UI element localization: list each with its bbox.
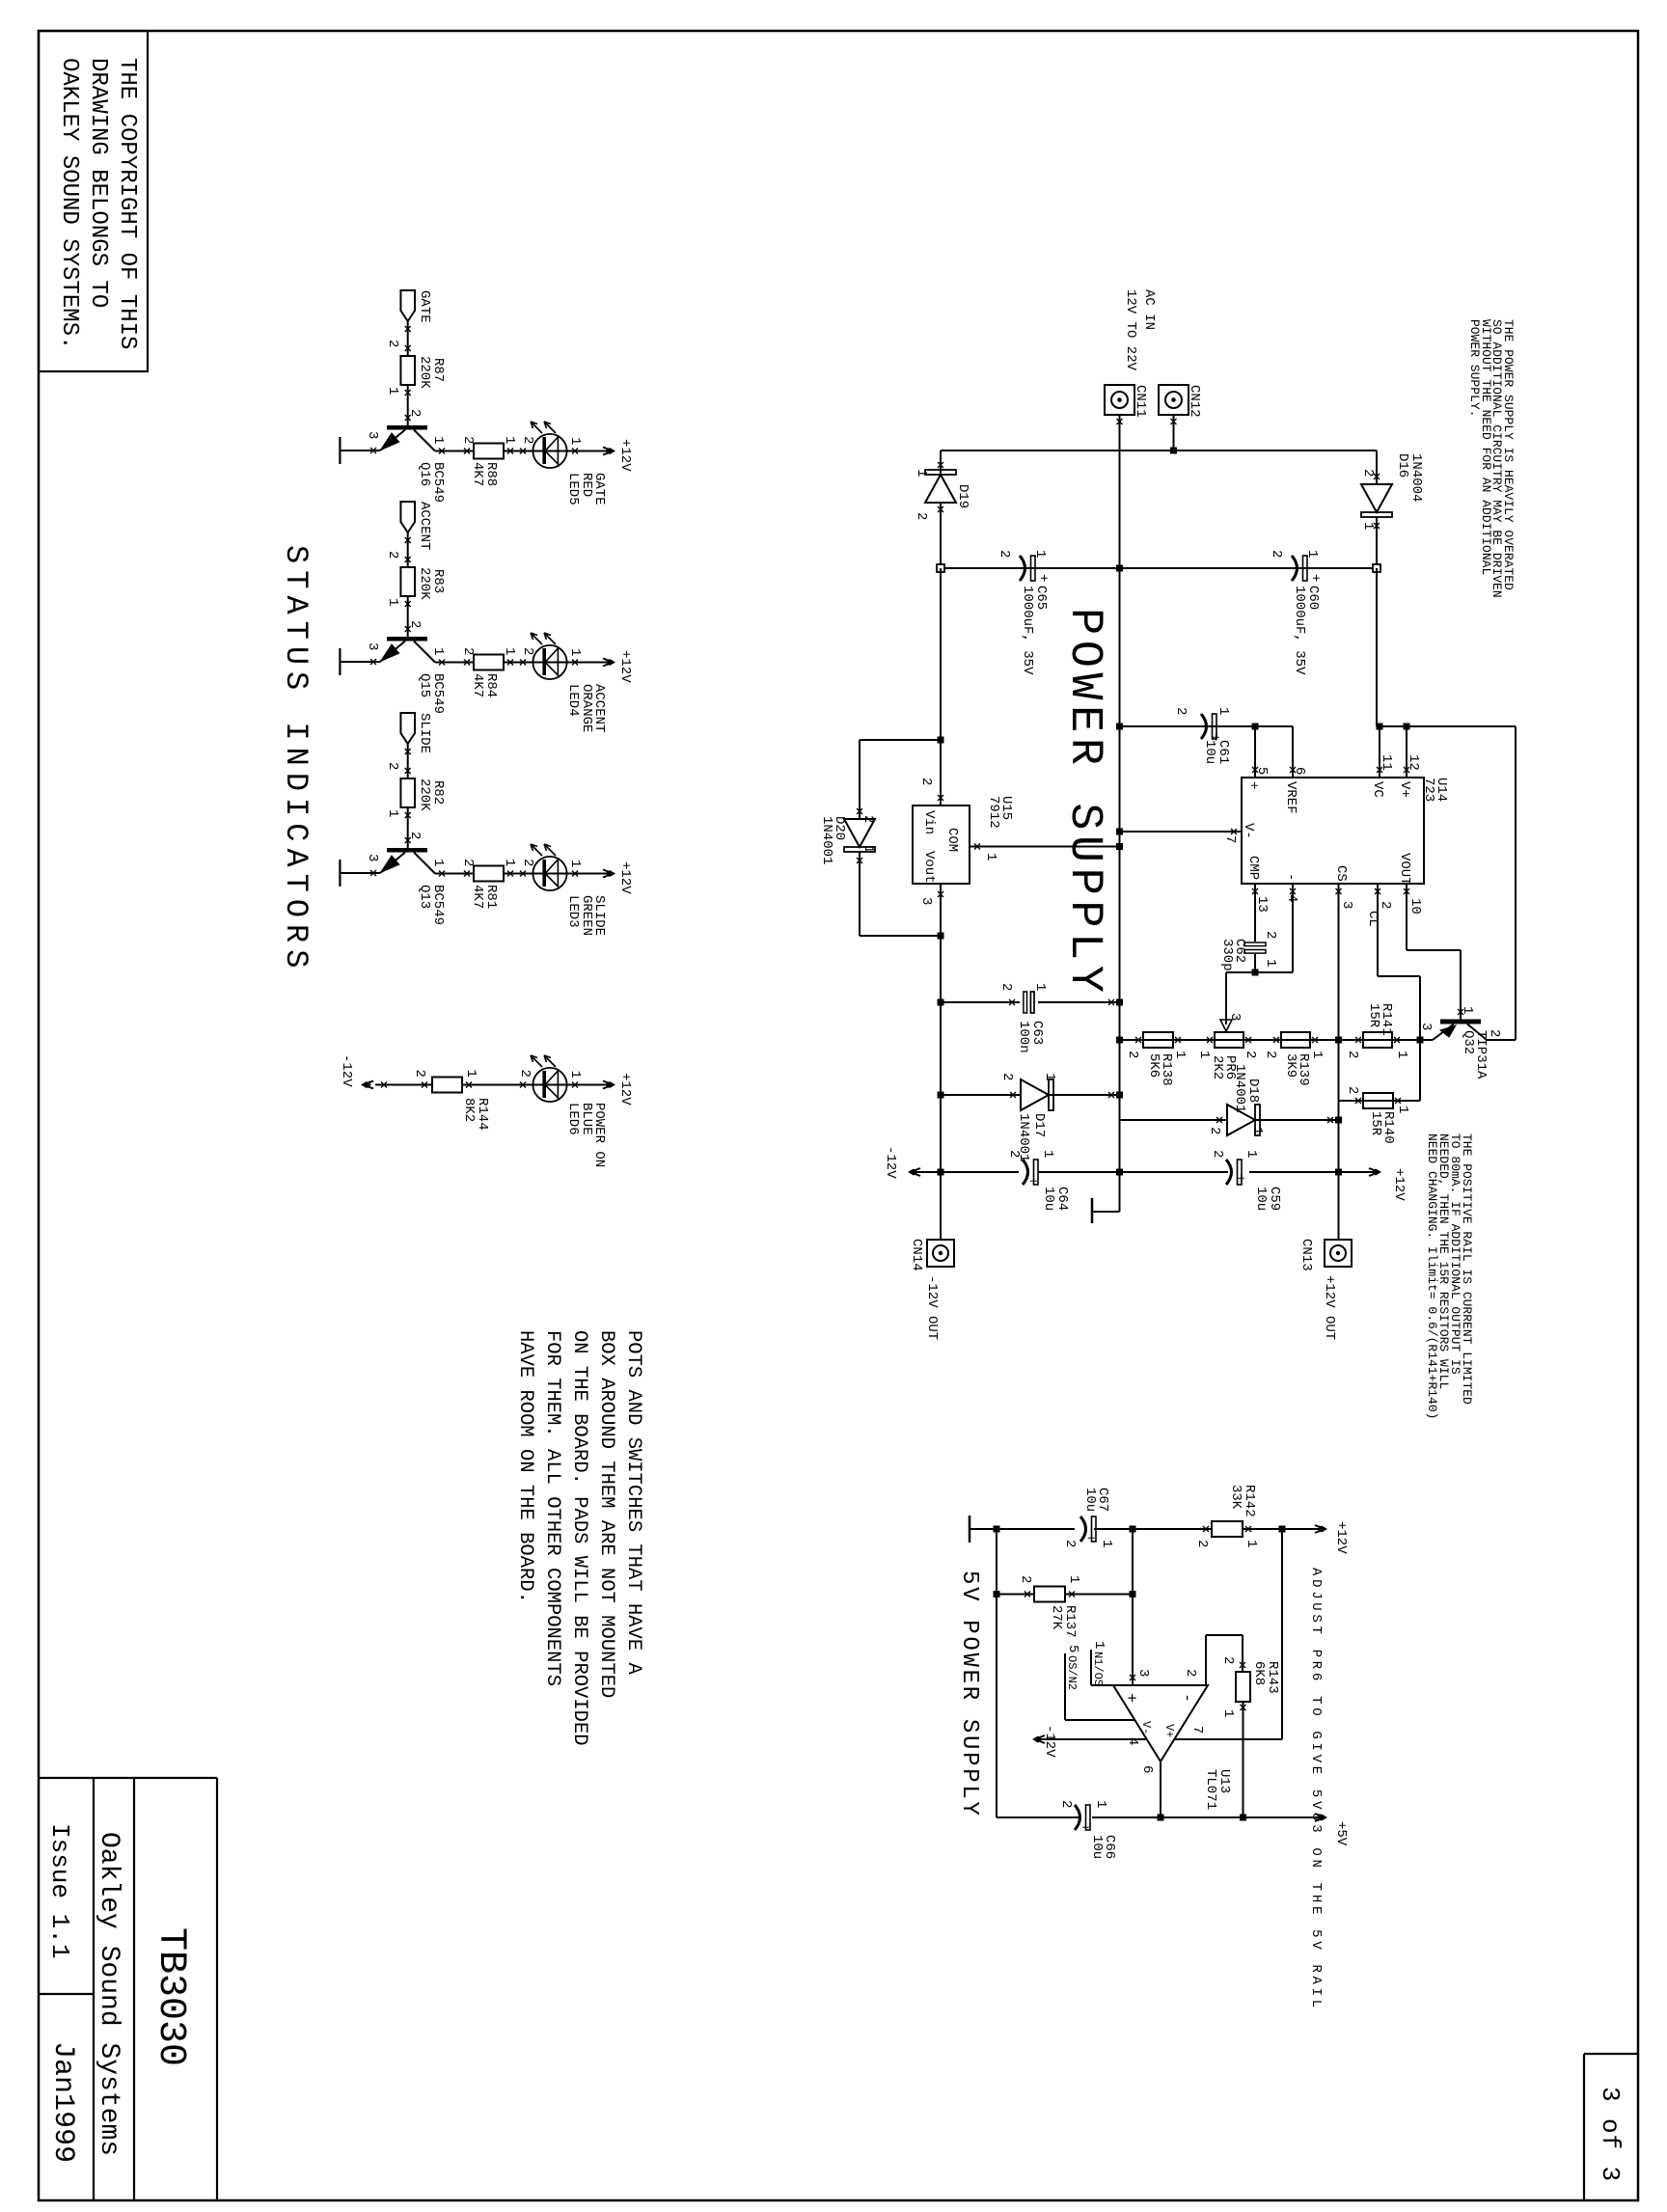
junction D18 — [1335, 1117, 1342, 1124]
svg-text:3: 3 — [1339, 901, 1354, 909]
svg-text:2: 2 — [412, 1070, 427, 1078]
svg-text:2: 2 — [1006, 1150, 1022, 1158]
svg-text:1: 1 — [1172, 1051, 1188, 1058]
svg-text:6: 6 — [1292, 767, 1307, 775]
svg-text:Issue 1.1: Issue 1.1 — [45, 1823, 74, 1958]
svg-text:1: 1 — [1196, 1051, 1212, 1058]
svg-text:+: + — [1121, 1693, 1139, 1703]
junction out/0V — [1116, 1169, 1123, 1176]
svg-text:1: 1 — [1460, 1006, 1475, 1014]
svg-text:2: 2 — [1207, 1127, 1222, 1134]
svg-text:2: 2 — [1345, 1086, 1360, 1094]
svg-text:11: 11 — [1379, 754, 1394, 771]
Q32 emitter — [1433, 1024, 1454, 1041]
wire emitter chain vertical — [1120, 1039, 1434, 1041]
wire 0V branch — [996, 1529, 997, 1817]
wire VOUT pin10 to Q32 base — [1406, 884, 1407, 950]
resistor R141 — [1363, 1032, 1392, 1048]
svg-text:10u: 10u — [1089, 1835, 1105, 1859]
svg-text:7: 7 — [1222, 835, 1238, 843]
svg-text:1: 1 — [1091, 1641, 1107, 1649]
svg-text:1: 1 — [567, 437, 583, 445]
svg-text:1: 1 — [1394, 1051, 1409, 1058]
svg-text:723: 723 — [1421, 778, 1436, 802]
svg-text:AC IN: AC IN — [1141, 289, 1157, 330]
wire divider node to opamp + — [1132, 1529, 1134, 1685]
transistor Q13 BC549 — [387, 848, 427, 853]
junction out/-12V — [938, 1169, 944, 1176]
svg-text:2: 2 — [1125, 1051, 1140, 1058]
svg-text:1: 1 — [430, 859, 446, 866]
wire pin5 stub — [1254, 726, 1256, 778]
diode D18 — [1255, 1119, 1339, 1121]
svg-text:+: + — [1025, 1177, 1040, 1185]
svg-text:1N4001: 1N4001 — [819, 816, 834, 864]
collector chain vertical — [435, 451, 474, 452]
emitter diagonal with arrow — [380, 430, 405, 451]
svg-text:1: 1 — [1216, 707, 1231, 715]
wire pin4 minus — [1292, 884, 1294, 972]
wire opamp output — [1160, 1761, 1161, 1817]
junction chain/0V — [1116, 1037, 1123, 1044]
wire LED6 to +12V — [572, 1082, 578, 1088]
svg-text:2: 2 — [1058, 1800, 1074, 1808]
svg-text:220K: 220K — [417, 567, 432, 600]
svg-text:2: 2 — [1269, 550, 1284, 558]
svg-text:27K: 27K — [1049, 1605, 1064, 1630]
svg-text:2: 2 — [1062, 1540, 1078, 1547]
svg-text:100n: 100n — [1016, 1021, 1031, 1053]
input flag ACCENT — [400, 502, 415, 533]
svg-text:2: 2 — [520, 436, 535, 444]
svg-text:OAKLEY SOUND SYSTEMS.: OAKLEY SOUND SYSTEMS. — [56, 58, 82, 349]
svg-text:HAVE ROOM ON THE BOARD.: HAVE ROOM ON THE BOARD. — [514, 1330, 536, 1603]
junction CL/emitter — [1417, 1037, 1424, 1044]
svg-text:8K2: 8K2 — [461, 1098, 477, 1122]
junction C63/0V — [1116, 999, 1123, 1006]
junction D20 left — [938, 737, 944, 744]
ground symbol 0V — [1092, 1211, 1120, 1213]
junction D17/-12V — [938, 1092, 944, 1099]
LED rays — [544, 633, 556, 644]
svg-text:1: 1 — [1099, 1540, 1114, 1547]
svg-text:CN12: CN12 — [1187, 385, 1202, 418]
svg-text:+: + — [1232, 1174, 1247, 1182]
transistor Q15 BC549 — [387, 637, 427, 642]
svg-text:1: 1 — [861, 845, 876, 853]
svg-text:1: 1 — [1066, 1575, 1081, 1583]
svg-text:-12V: -12V — [1042, 1725, 1057, 1758]
svg-text:3: 3 — [918, 897, 934, 905]
svg-text:2: 2 — [1183, 1669, 1198, 1677]
sheet number box 3 of 3 — [1584, 2053, 1637, 2055]
svg-text:1: 1 — [385, 598, 400, 606]
svg-text:VREF: VREF — [1283, 781, 1298, 814]
C61 — [1201, 714, 1216, 739]
svg-text:10u: 10u — [1253, 1187, 1269, 1211]
wire V+ stub — [1406, 726, 1407, 778]
svg-text:3: 3 — [365, 431, 380, 439]
svg-text:2: 2 — [1018, 1575, 1033, 1583]
svg-text:2: 2 — [520, 859, 535, 866]
C59 — [1226, 1160, 1242, 1185]
svg-text:4K7: 4K7 — [470, 462, 485, 486]
wire -12V to R144 — [375, 1084, 432, 1086]
wire VREF stub — [1292, 726, 1294, 778]
svg-text:+: + — [1245, 781, 1261, 789]
svg-text:VC: VC — [1370, 781, 1385, 798]
svg-text:CN11: CN11 — [1133, 385, 1148, 418]
resistor R143 — [1236, 1672, 1250, 1702]
svg-text:3K9: 3K9 — [1283, 1053, 1298, 1078]
svg-text:+: + — [1077, 1823, 1092, 1831]
svg-text:2: 2 — [1360, 469, 1376, 477]
junction divider — [1130, 1526, 1136, 1533]
wire VC stub — [1379, 726, 1380, 778]
ground bar — [340, 450, 380, 451]
svg-text:BOX AROUND THEM ARE NOT MOUNTE: BOX AROUND THEM ARE NOT MOUNTED — [595, 1330, 617, 1698]
svg-text:2: 2 — [1173, 707, 1189, 715]
svg-text:2: 2 — [999, 1073, 1015, 1080]
resistor R142 — [1212, 1521, 1243, 1537]
junction D20 right — [938, 933, 944, 940]
junction pin5 — [1252, 724, 1259, 730]
junction VC — [1377, 724, 1383, 730]
resistor R144 — [432, 1078, 462, 1093]
svg-text:+: + — [1035, 574, 1051, 582]
-12V arrow — [366, 1081, 373, 1089]
junction C63/-12V — [938, 999, 944, 1006]
svg-text:FOR THEM. ALL OTHER COMPONENTS: FOR THEM. ALL OTHER COMPONENTS — [541, 1330, 563, 1686]
LED LED6 — [533, 1068, 566, 1102]
svg-text:1: 1 — [1040, 1150, 1055, 1158]
svg-text:3: 3 — [1418, 1023, 1434, 1030]
svg-text:LED3: LED3 — [565, 895, 581, 928]
connector CN14 — [927, 1240, 954, 1267]
junction R137 top — [1130, 1591, 1136, 1598]
svg-text:4K7: 4K7 — [470, 673, 485, 697]
Q32 collector — [1467, 1024, 1487, 1041]
wire R143 to +5V rail — [1243, 1702, 1244, 1817]
svg-text:D17: D17 — [1031, 1113, 1047, 1137]
ground bar — [340, 872, 380, 874]
svg-text:220K: 220K — [417, 356, 432, 389]
connector CN13 — [1325, 1240, 1352, 1267]
svg-text:3: 3 — [365, 854, 380, 861]
svg-text:1: 1 — [567, 648, 583, 656]
svg-text:1: 1 — [430, 436, 446, 444]
svg-text:Jan1999: Jan1999 — [46, 2041, 79, 2163]
junction C62 — [1252, 969, 1259, 976]
svg-text:1: 1 — [1309, 1051, 1325, 1058]
diode D19 — [940, 451, 942, 475]
svg-text:1: 1 — [567, 1071, 583, 1079]
svg-text:Q15: Q15 — [417, 673, 432, 697]
5V supply main rail — [1243, 1528, 1325, 1530]
emitter diagonal with arrow — [380, 642, 405, 663]
svg-text:2: 2 — [517, 1070, 533, 1078]
wire +raw to U14 — [1376, 568, 1378, 726]
svg-text:Vout: Vout — [921, 851, 937, 884]
svg-text:2: 2 — [1263, 931, 1278, 939]
svg-text:+12V: +12V — [617, 439, 633, 472]
svg-text:10u: 10u — [1041, 1187, 1056, 1211]
svg-text:+: + — [1082, 1534, 1098, 1542]
wire CN12 to AC line — [1173, 415, 1175, 451]
svg-text:2: 2 — [385, 551, 400, 559]
svg-text:12V TO 22V: 12V TO 22V — [1123, 289, 1138, 371]
svg-text:2: 2 — [1210, 1150, 1225, 1158]
svg-text:2K2: 2K2 — [1210, 1055, 1225, 1079]
wire CS pin3 rail — [1338, 884, 1340, 1101]
svg-text:3: 3 — [1227, 1013, 1243, 1021]
svg-text:GATE: GATE — [417, 290, 432, 323]
LED rays — [544, 422, 556, 433]
resistor R81 4K7 — [474, 866, 504, 882]
emitter diagonal with arrow — [380, 853, 405, 874]
collector diagonal — [414, 430, 435, 451]
svg-text:1: 1 — [1263, 959, 1278, 967]
svg-text:10u: 10u — [1202, 740, 1217, 764]
svg-text:CMP: CMP — [1245, 856, 1261, 880]
wire 0V line from CN11 — [1119, 415, 1121, 1212]
svg-text:STATUS INDICATORS: STATUS INDICATORS — [278, 545, 314, 974]
svg-text:OS/N2: OS/N2 — [1065, 1655, 1079, 1690]
svg-text:+12V OUT: +12V OUT — [1322, 1275, 1337, 1340]
wire to base — [407, 596, 409, 637]
LED LED4 — [533, 645, 566, 679]
svg-text:1000uF, 35V: 1000uF, 35V — [1292, 586, 1307, 675]
resistor R139 — [1281, 1032, 1310, 1048]
svg-text:+: + — [1307, 574, 1323, 582]
svg-text:2: 2 — [914, 512, 929, 520]
svg-text:ON THE BOARD. PADS WILL BE PRO: ON THE BOARD. PADS WILL BE PROVIDED — [568, 1330, 590, 1746]
copyright box — [39, 31, 148, 371]
svg-text:V+: V+ — [1162, 1724, 1176, 1737]
resistor R82 — [400, 778, 415, 807]
svg-text:+5V: +5V — [1333, 1821, 1349, 1846]
svg-text:1: 1 — [1032, 550, 1048, 558]
svg-text:SLIDE: SLIDE — [417, 713, 432, 753]
svg-text:Q13: Q13 — [417, 885, 432, 909]
C65 — [1020, 556, 1035, 581]
svg-text:CN14: CN14 — [909, 1239, 924, 1271]
C60 — [1292, 556, 1307, 581]
svg-text:2: 2 — [520, 647, 535, 655]
ground bar — [340, 661, 380, 663]
junction pin7/0V — [1116, 829, 1123, 835]
svg-text:D16: D16 — [1395, 453, 1410, 478]
svg-text:3: 3 — [1135, 1669, 1151, 1677]
wire U14 pin7 V- to 0V — [1120, 831, 1243, 833]
svg-text:6: 6 — [1139, 1765, 1155, 1773]
resistor R87 — [400, 356, 415, 385]
svg-text:+12V: +12V — [617, 1073, 633, 1106]
input flag SLIDE — [400, 713, 415, 744]
transistor Q16 BC549 — [387, 425, 427, 430]
svg-text:1000uF, 35V: 1000uF, 35V — [1020, 586, 1035, 675]
svg-text:-: - — [1177, 1693, 1195, 1703]
wire -raw into U15 — [940, 568, 942, 806]
junction CS/chain — [1335, 1037, 1342, 1044]
svg-text:2: 2 — [861, 815, 876, 823]
svg-text:1N4001: 1N4001 — [1232, 1064, 1247, 1112]
svg-text:TL071: TL071 — [1203, 1769, 1218, 1810]
junction D17/0V — [1116, 1092, 1123, 1099]
wire V- to -12V arrow — [1034, 1738, 1146, 1740]
svg-text:3: 3 — [365, 642, 380, 650]
wire -12V rail to CN14 — [940, 884, 942, 1240]
junction V+ branch — [1279, 1526, 1286, 1533]
transistor Q32 TIP31A — [1440, 1020, 1481, 1024]
svg-text:7912: 7912 — [986, 796, 1001, 829]
svg-text:1: 1 — [502, 436, 517, 444]
junction R143 — [1240, 1815, 1246, 1821]
svg-text:LED6: LED6 — [565, 1103, 581, 1135]
svg-text:1: 1 — [1249, 1127, 1265, 1134]
svg-text:TB3030: TB3030 — [149, 1927, 192, 2066]
wire minus input feedback — [1205, 1635, 1207, 1685]
collector diagonal — [414, 853, 435, 874]
svg-text:2: 2 — [1243, 1051, 1258, 1058]
wire U15 COM to 0V — [970, 846, 1120, 848]
svg-text:1: 1 — [1243, 1150, 1259, 1158]
svg-text:10u: 10u — [1082, 1488, 1098, 1512]
trimmer PR6 — [1215, 1032, 1243, 1048]
+5V rail — [1161, 1816, 1325, 1818]
C66 — [1075, 1805, 1090, 1830]
svg-text:2: 2 — [407, 832, 423, 839]
svg-text:15R: 15R — [1366, 1003, 1381, 1028]
svg-text:2: 2 — [385, 340, 400, 347]
svg-text:V+: V+ — [1397, 781, 1412, 798]
svg-text:+12V: +12V — [617, 650, 633, 683]
ground symbol 5V — [969, 1516, 971, 1543]
svg-text:2: 2 — [998, 983, 1014, 991]
svg-text:2: 2 — [1378, 901, 1393, 909]
collector diagonal — [414, 642, 435, 663]
svg-text:4K7: 4K7 — [470, 885, 485, 909]
svg-text:ACCENT: ACCENT — [417, 502, 432, 550]
diode D16 — [1376, 451, 1378, 484]
input flag GATE — [400, 290, 415, 321]
svg-text:1: 1 — [1032, 983, 1048, 991]
svg-text:1: 1 — [1243, 1540, 1259, 1547]
svg-text:NEED CHANGING. Ilimit= 0.6/(R1: NEED CHANGING. Ilimit= 0.6/(R141+R140) — [1425, 1133, 1439, 1419]
LED LED3 — [533, 857, 566, 890]
svg-text:LED4: LED4 — [565, 684, 581, 717]
LED LED5 — [533, 434, 566, 468]
svg-text:10: 10 — [1407, 898, 1423, 915]
svg-text:V-: V- — [1139, 1721, 1153, 1734]
svg-text:2: 2 — [407, 620, 423, 628]
svg-text:CN13: CN13 — [1298, 1239, 1314, 1271]
svg-text:D19: D19 — [955, 484, 970, 508]
C64 — [1023, 1160, 1038, 1185]
C67 — [1080, 1516, 1096, 1542]
collector chain vertical — [435, 662, 474, 664]
svg-text:33K: 33K — [1228, 1485, 1243, 1510]
svg-text:N1/OS: N1/OS — [1091, 1652, 1105, 1686]
svg-text:2: 2 — [1220, 1656, 1236, 1664]
LED rays — [544, 844, 556, 856]
svg-text:-12V OUT: -12V OUT — [924, 1275, 940, 1340]
svg-text:1: 1 — [385, 809, 400, 817]
opamp U13 TL071 — [1113, 1685, 1208, 1761]
svg-text:1: 1 — [983, 853, 998, 860]
svg-text:POTS AND SWITCHES THAT HAVE A: POTS AND SWITCHES THAT HAVE A — [622, 1330, 644, 1675]
junction V+ — [1404, 724, 1410, 730]
svg-text:3 of 3: 3 of 3 — [1596, 2087, 1625, 2182]
svg-text:Vin: Vin — [921, 810, 937, 834]
wire to base — [407, 385, 409, 425]
svg-text:+12V: +12V — [617, 861, 633, 894]
regulator U14 723 — [1242, 778, 1424, 884]
title block — [216, 1778, 218, 2200]
resistor R137 — [1065, 1594, 1133, 1596]
junction R137 bottom — [994, 1591, 1000, 1598]
junction COM/0V — [1116, 843, 1123, 850]
junction CN12/AC — [1170, 448, 1177, 454]
wire C61 branch — [1120, 725, 1256, 727]
svg-text:1: 1 — [385, 387, 400, 395]
diode D17 — [1050, 1094, 1120, 1096]
svg-text:13: 13 — [1254, 896, 1270, 913]
svg-text:220K: 220K — [417, 778, 432, 811]
+12V arrow — [603, 659, 611, 667]
wire +12V rail to CN13 — [1338, 1101, 1340, 1240]
svg-text:5: 5 — [1065, 1645, 1080, 1652]
svg-text:2: 2 — [407, 409, 423, 417]
svg-text:ADJUST PR6 TO GIVE 5V33 ON THE: ADJUST PR6 TO GIVE 5V33 ON THE 5V RAIL — [1308, 1568, 1324, 2011]
+12V arrow — [603, 448, 611, 455]
svg-text:COM: COM — [944, 828, 960, 852]
svg-text:THE COPYRIGHT OF THIS: THE COPYRIGHT OF THIS — [114, 58, 140, 349]
capacitor C62 — [1244, 942, 1266, 953]
svg-text:1: 1 — [502, 859, 517, 866]
svg-text:+12V: +12V — [1333, 1521, 1349, 1554]
svg-text:VOUT: VOUT — [1397, 853, 1412, 886]
svg-text:1: 1 — [1395, 1106, 1410, 1113]
wire ACCENT flag to resistor — [407, 533, 409, 567]
junction output — [1158, 1815, 1164, 1821]
offset null stubs — [1090, 1650, 1092, 1685]
regulator U15 7912 — [913, 806, 970, 884]
svg-text:5V POWER SUPPLY: 5V POWER SUPPLY — [956, 1570, 982, 1818]
wire to base — [407, 807, 409, 848]
svg-text:2: 2 — [385, 762, 400, 770]
svg-text:4: 4 — [1125, 1737, 1140, 1745]
junction out — [1335, 1169, 1342, 1176]
wire R144 to LED6 — [462, 1084, 614, 1086]
wire V+ branch — [1281, 1529, 1283, 1739]
junction chain/0V — [1116, 565, 1123, 572]
svg-text:1: 1 — [463, 1070, 478, 1078]
svg-text:330p: 330p — [1219, 939, 1235, 971]
resistor R138 — [1143, 1032, 1173, 1048]
wire PR6 wiper — [1225, 972, 1227, 1024]
svg-text:Q16: Q16 — [417, 462, 432, 486]
svg-text:V-: V- — [1241, 823, 1256, 839]
resistor R84 4K7 — [474, 655, 504, 670]
wire AC vertical line — [941, 450, 1377, 451]
svg-text:1: 1 — [1304, 550, 1320, 558]
wire SLIDE flag to resistor — [407, 744, 409, 778]
wire CL pin2 — [1377, 884, 1379, 976]
svg-text:12: 12 — [1406, 754, 1421, 771]
svg-text:2: 2 — [997, 550, 1012, 558]
svg-text:Q32: Q32 — [1461, 1030, 1476, 1054]
